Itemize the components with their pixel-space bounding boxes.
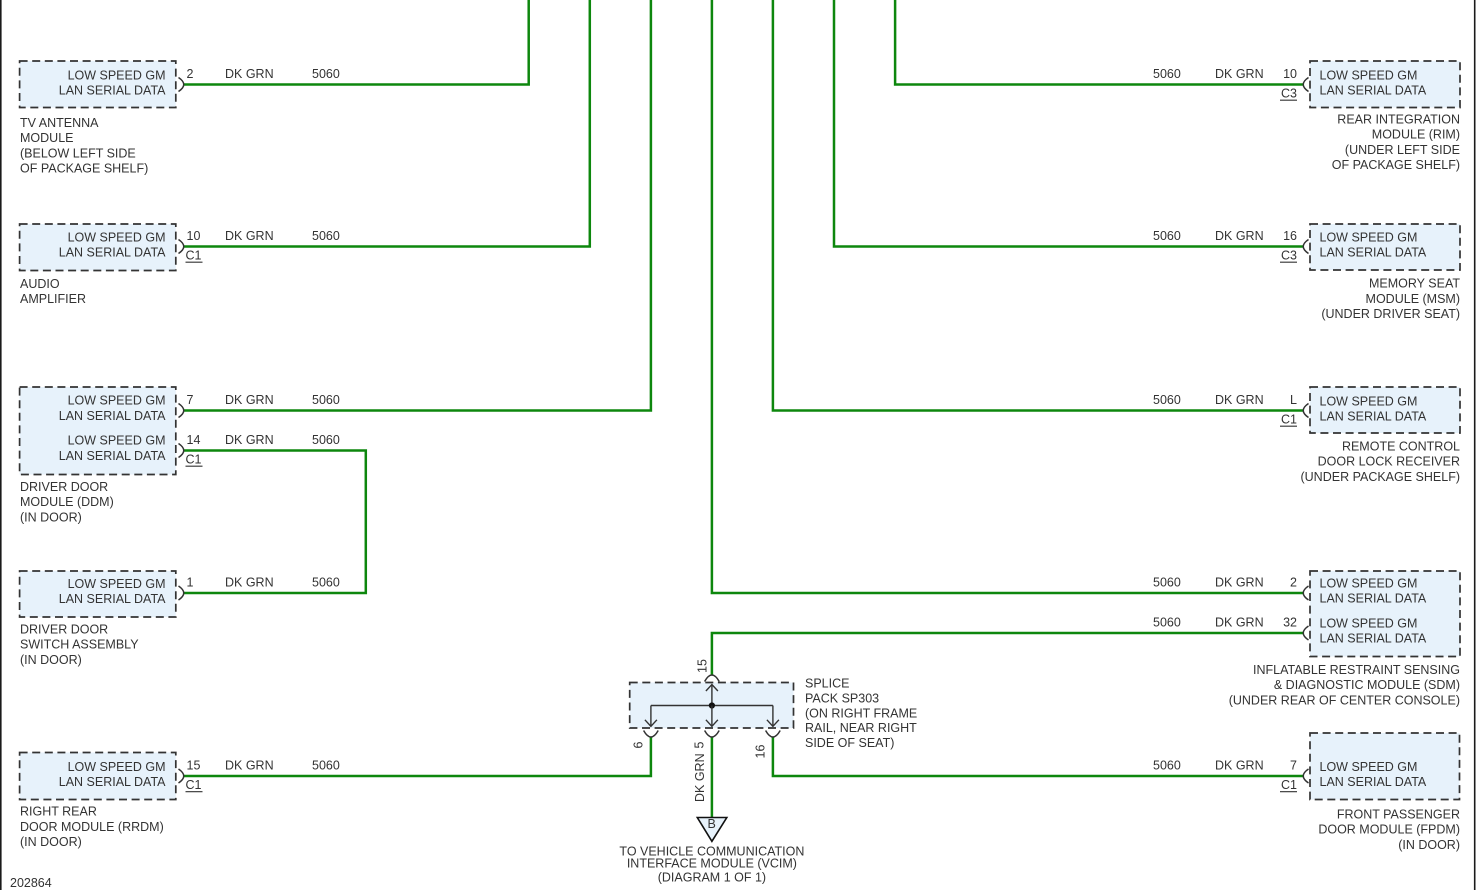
svg-text:C1: C1 xyxy=(186,249,202,263)
splice internal down arrow (center) xyxy=(706,706,718,727)
svg-text:DK GRN: DK GRN xyxy=(1215,67,1264,81)
wire: driver door module pin 14 to driver door switch assembly pin 1, DK GRN 5060 xyxy=(184,451,366,594)
svg-text:AUDIO: AUDIO xyxy=(20,277,60,291)
page frame right border xyxy=(1474,0,1476,890)
connector C3 label xyxy=(1280,249,1297,263)
connector arc, right module pin 32 xyxy=(1303,626,1308,640)
module name label: AUDIO AMPLIFIER xyxy=(20,277,86,306)
svg-text:5060: 5060 xyxy=(312,759,340,773)
svg-text:(BELOW LEFT SIDE: (BELOW LEFT SIDE xyxy=(20,146,136,160)
module box U9: inflatable restraint sensing and diagnostic module (SDM), LOW SPEED GM LAN SERIAL DATA x2 xyxy=(1310,571,1460,657)
svg-text:LOW SPEED GM: LOW SPEED GM xyxy=(1320,577,1418,591)
svg-text:LOW SPEED GM: LOW SPEED GM xyxy=(68,577,166,591)
svg-text:RIGHT REAR: RIGHT REAR xyxy=(20,805,97,819)
svg-text:LOW SPEED GM: LOW SPEED GM xyxy=(1320,395,1418,409)
svg-text:5060: 5060 xyxy=(1153,616,1181,630)
svg-text:7: 7 xyxy=(187,393,194,407)
svg-text:5060: 5060 xyxy=(312,393,340,407)
svg-text:202864: 202864 xyxy=(10,876,52,890)
connector arc, left module pin 7 xyxy=(179,404,184,418)
svg-text:LAN SERIAL DATA: LAN SERIAL DATA xyxy=(59,84,166,98)
svg-text:DK GRN: DK GRN xyxy=(1215,576,1264,590)
svg-text:LAN SERIAL DATA: LAN SERIAL DATA xyxy=(1320,84,1427,98)
destination label: TO VEHICLE COMMUNICATION INTERFACE MODULE (VCIM) xyxy=(619,845,804,885)
connector C3 label xyxy=(1280,87,1297,101)
page frame left border xyxy=(0,0,2,890)
svg-text:5060: 5060 xyxy=(312,229,340,243)
splice internal down arrow (right) xyxy=(767,706,779,727)
module box U2: audio amplifier, LOW SPEED GM LAN SERIAL DATA xyxy=(20,224,176,271)
svg-text:DK GRN: DK GRN xyxy=(225,576,274,590)
svg-text:2: 2 xyxy=(1290,576,1297,590)
wire: splice SP303 pin 16 to front passenger door module pin 7, DK GRN 5060 xyxy=(773,737,1304,776)
svg-text:(UNDER REAR OF CENTER CONSOLE): (UNDER REAR OF CENTER CONSOLE) xyxy=(1229,693,1460,707)
svg-text:LOW SPEED GM: LOW SPEED GM xyxy=(68,760,166,774)
module box U5: right rear door module (RRDM), LOW SPEED GM LAN SERIAL DATA xyxy=(20,753,176,800)
splice internal up arrow xyxy=(706,685,718,706)
connector arc, right module pin 10 xyxy=(1303,78,1308,92)
svg-text:MODULE (DDM): MODULE (DDM) xyxy=(20,495,114,509)
svg-text:DOOR LOCK RECEIVER: DOOR LOCK RECEIVER xyxy=(1318,455,1460,469)
svg-text:DK GRN: DK GRN xyxy=(225,393,274,407)
connector arc, left module pin 10 xyxy=(179,240,184,254)
svg-text:PACK SP303: PACK SP303 xyxy=(805,692,879,706)
svg-text:5060: 5060 xyxy=(1153,393,1181,407)
svg-text:5060: 5060 xyxy=(1153,576,1181,590)
connector C1 label xyxy=(186,249,203,263)
splice pack name label xyxy=(805,677,917,750)
svg-text:LAN SERIAL DATA: LAN SERIAL DATA xyxy=(59,246,166,260)
svg-text:(IN DOOR): (IN DOOR) xyxy=(20,653,82,667)
svg-text:(ON RIGHT FRAME: (ON RIGHT FRAME xyxy=(805,706,917,720)
module box U4: driver door switch assembly, LOW SPEED GM LAN SERIAL DATA xyxy=(20,571,176,617)
module name label: DRIVER DOOR SWITCH ASSEMBLY xyxy=(20,623,139,667)
module name label: INFLATABLE RESTRAINT SENSING AND DIAGNOSTIC MODULE (SDM) xyxy=(1229,663,1460,707)
svg-text:(UNDER LEFT SIDE: (UNDER LEFT SIDE xyxy=(1345,143,1460,157)
module name label: DRIVER DOOR MODULE (DDM) xyxy=(20,480,114,524)
module box U1: TV antenna module, LOW SPEED GM LAN SERIAL DATA xyxy=(20,61,176,108)
svg-text:REAR INTEGRATION: REAR INTEGRATION xyxy=(1337,113,1460,127)
svg-text:LOW SPEED GM: LOW SPEED GM xyxy=(1320,760,1418,774)
connector C1 label xyxy=(1280,413,1297,427)
wire: SDM pin 2 to trunk, DK GRN 5060 xyxy=(712,0,1304,593)
svg-text:B: B xyxy=(708,817,716,831)
svg-text:5060: 5060 xyxy=(312,576,340,590)
connector C1 label xyxy=(186,453,203,467)
svg-text:7: 7 xyxy=(1290,759,1297,773)
svg-text:16: 16 xyxy=(754,745,768,759)
svg-text:15: 15 xyxy=(187,759,201,773)
svg-text:10: 10 xyxy=(1283,67,1297,81)
svg-text:REMOTE CONTROL: REMOTE CONTROL xyxy=(1342,440,1460,454)
svg-text:6: 6 xyxy=(632,742,646,749)
module box U3: driver door module (DDM), LOW SPEED GM LAN SERIAL DATA x2 xyxy=(20,387,176,475)
svg-text:5: 5 xyxy=(693,742,707,749)
svg-text:DOOR MODULE (RRDM): DOOR MODULE (RRDM) xyxy=(20,820,164,834)
splice internal bus line xyxy=(651,705,773,707)
svg-text:DRIVER DOOR: DRIVER DOOR xyxy=(20,480,108,494)
module box U6: rear integration module (RIM), LOW SPEED GM LAN SERIAL DATA xyxy=(1310,61,1460,108)
svg-text:16: 16 xyxy=(1283,229,1297,243)
svg-text:MODULE (RIM): MODULE (RIM) xyxy=(1372,128,1460,142)
svg-text:1: 1 xyxy=(187,576,194,590)
svg-text:SWITCH ASSEMBLY: SWITCH ASSEMBLY xyxy=(20,638,139,652)
svg-text:5060: 5060 xyxy=(312,67,340,81)
svg-text:DK GRN: DK GRN xyxy=(693,753,707,802)
wire: rear integration module pin 10 to trunk, DK GRN 5060 xyxy=(895,0,1303,85)
wire: memory seat module pin 16 to trunk, DK GRN 5060 xyxy=(834,0,1304,247)
svg-text:DK GRN: DK GRN xyxy=(1215,616,1264,630)
svg-text:DK GRN: DK GRN xyxy=(225,67,274,81)
connector arc, right module pin 7 xyxy=(1303,769,1308,783)
svg-text:(UNDER PACKAGE SHELF): (UNDER PACKAGE SHELF) xyxy=(1300,470,1460,484)
svg-text:LAN SERIAL DATA: LAN SERIAL DATA xyxy=(1320,410,1427,424)
wire: TV antenna module pin 2 to trunk, DK GRN 5060 xyxy=(184,0,529,85)
svg-text:MODULE (MSM): MODULE (MSM) xyxy=(1366,292,1460,306)
svg-text:(IN DOOR): (IN DOOR) xyxy=(20,835,82,849)
svg-text:L: L xyxy=(1290,393,1297,407)
svg-text:LOW SPEED GM: LOW SPEED GM xyxy=(68,231,166,245)
svg-text:C1: C1 xyxy=(1281,413,1297,427)
svg-text:DK GRN: DK GRN xyxy=(1215,759,1264,773)
connector arc, left module pin 2 xyxy=(179,78,184,92)
svg-text:C1: C1 xyxy=(186,453,202,467)
svg-text:INFLATABLE RESTRAINT SENSING: INFLATABLE RESTRAINT SENSING xyxy=(1253,663,1460,677)
connector arc, splice pin 16 (bottom) xyxy=(766,731,781,738)
module name label: TV ANTENNA MODULE xyxy=(20,116,148,176)
connector arc, splice pin 5 (bottom) xyxy=(705,731,720,738)
wire: remote control door lock receiver pin L to trunk, DK GRN 5060 xyxy=(773,0,1304,411)
svg-text:TV ANTENNA: TV ANTENNA xyxy=(20,116,99,130)
svg-text:LAN SERIAL DATA: LAN SERIAL DATA xyxy=(59,775,166,789)
svg-text:MODULE: MODULE xyxy=(20,131,73,145)
svg-text:(IN DOOR): (IN DOOR) xyxy=(1398,838,1460,852)
svg-text:LOW SPEED GM: LOW SPEED GM xyxy=(68,394,166,408)
svg-text:DK GRN: DK GRN xyxy=(1215,229,1264,243)
svg-text:MEMORY SEAT: MEMORY SEAT xyxy=(1369,277,1460,291)
connector arc, right module pin 2 xyxy=(1303,586,1308,600)
connector C1 label xyxy=(1280,778,1297,792)
svg-text:LOW SPEED GM: LOW SPEED GM xyxy=(68,69,166,83)
svg-text:FRONT PASSENGER: FRONT PASSENGER xyxy=(1337,808,1460,822)
svg-text:SIDE OF SEAT): SIDE OF SEAT) xyxy=(805,736,894,750)
svg-text:DK GRN: DK GRN xyxy=(225,433,274,447)
connector arc, right module pin L xyxy=(1303,404,1308,418)
module box U7: memory seat module (MSM), LOW SPEED GM LAN SERIAL DATA xyxy=(1310,224,1460,270)
svg-text:LAN SERIAL DATA: LAN SERIAL DATA xyxy=(59,409,166,423)
svg-text:15: 15 xyxy=(695,659,709,673)
connector C1 label xyxy=(186,778,203,792)
wire: splice SP303 pin 6 to right rear door module pin 15, DK GRN 5060 xyxy=(184,737,651,776)
svg-text:SPLICE: SPLICE xyxy=(805,677,849,691)
svg-text:LAN SERIAL DATA: LAN SERIAL DATA xyxy=(1320,592,1427,606)
svg-text:OF PACKAGE SHELF): OF PACKAGE SHELF) xyxy=(20,162,148,176)
svg-text:C3: C3 xyxy=(1281,87,1297,101)
svg-text:DK GRN: DK GRN xyxy=(225,759,274,773)
svg-text:RAIL, NEAR RIGHT: RAIL, NEAR RIGHT xyxy=(805,721,917,735)
module box U10: front passenger door module (FPDM), LOW SPEED GM LAN SERIAL DATA xyxy=(1310,733,1460,800)
wire: SDM pin 32 to splice SP303 pin 15, DK GRN 5060 xyxy=(712,633,1304,675)
svg-text:32: 32 xyxy=(1283,616,1297,630)
svg-text:(UNDER DRIVER SEAT): (UNDER DRIVER SEAT) xyxy=(1321,307,1460,321)
module name label: FRONT PASSENGER DOOR MODULE (FPDM) xyxy=(1318,808,1460,852)
svg-text:DK GRN: DK GRN xyxy=(225,229,274,243)
svg-text:C3: C3 xyxy=(1281,249,1297,263)
svg-text:5060: 5060 xyxy=(312,433,340,447)
svg-text:LOW SPEED GM: LOW SPEED GM xyxy=(68,434,166,448)
connector arc, splice pin 6 (bottom) xyxy=(644,731,659,738)
svg-text:LOW SPEED GM: LOW SPEED GM xyxy=(1320,69,1418,83)
module name label: RIGHT REAR DOOR MODULE (RRDM) xyxy=(20,805,164,849)
splice junction dot xyxy=(709,702,715,708)
svg-text:LAN SERIAL DATA: LAN SERIAL DATA xyxy=(1320,632,1427,646)
connector arc, right module pin 16 xyxy=(1303,240,1308,254)
splice internal down arrow (left) xyxy=(645,706,657,727)
svg-text:5060: 5060 xyxy=(1153,229,1181,243)
svg-text:OF PACKAGE SHELF): OF PACKAGE SHELF) xyxy=(1332,158,1460,172)
wire: splice SP303 pin 5 to off-page connector B, DK GRN xyxy=(711,737,714,818)
svg-text:LAN SERIAL DATA: LAN SERIAL DATA xyxy=(59,592,166,606)
module name label: MEMORY SEAT MODULE (MSM) xyxy=(1321,277,1460,321)
svg-text:(DIAGRAM 1 OF 1): (DIAGRAM 1 OF 1) xyxy=(658,871,766,885)
svg-text:2: 2 xyxy=(187,67,194,81)
svg-text:14: 14 xyxy=(187,433,201,447)
svg-text:LAN SERIAL DATA: LAN SERIAL DATA xyxy=(59,449,166,463)
svg-text:C1: C1 xyxy=(186,778,202,792)
svg-text:10: 10 xyxy=(187,229,201,243)
svg-text:DOOR MODULE (FPDM): DOOR MODULE (FPDM) xyxy=(1318,823,1460,837)
connector arc, left module pin 14 xyxy=(179,444,184,458)
splice pack SP303 box xyxy=(630,683,794,729)
module name label: REAR INTEGRATION MODULE (RIM) xyxy=(1332,113,1460,173)
svg-text:5060: 5060 xyxy=(1153,759,1181,773)
svg-text:5060: 5060 xyxy=(1153,67,1181,81)
svg-text:DRIVER DOOR: DRIVER DOOR xyxy=(20,623,108,637)
connector arc, splice pin 15 (top) xyxy=(705,675,720,682)
off-page connector B (to VCIM) xyxy=(697,817,727,841)
svg-text:INTERFACE MODULE (VCIM): INTERFACE MODULE (VCIM) xyxy=(627,856,797,870)
module box U8: remote control door lock receiver, LOW SPEED GM LAN SERIAL DATA xyxy=(1310,387,1460,433)
svg-text:AMPLIFIER: AMPLIFIER xyxy=(20,292,86,306)
wire: audio amplifier pin 10 to trunk, DK GRN 5060 xyxy=(184,0,590,247)
svg-text:LAN SERIAL DATA: LAN SERIAL DATA xyxy=(1320,775,1427,789)
svg-text:LOW SPEED GM: LOW SPEED GM xyxy=(1320,231,1418,245)
svg-text:DK GRN: DK GRN xyxy=(1215,393,1264,407)
svg-text:LAN SERIAL DATA: LAN SERIAL DATA xyxy=(1320,246,1427,260)
module name label: REMOTE CONTROL DOOR LOCK RECEIVER xyxy=(1300,440,1460,484)
connector arc, left module pin 1 xyxy=(179,586,184,600)
svg-text:(IN DOOR): (IN DOOR) xyxy=(20,510,82,524)
connector arc, left module pin 15 xyxy=(179,769,184,783)
wire: driver door module pin 7 to trunk, DK GRN 5060 xyxy=(184,0,651,411)
svg-text:& DIAGNOSTIC MODULE (SDM): & DIAGNOSTIC MODULE (SDM) xyxy=(1274,678,1460,692)
svg-text:LOW SPEED GM: LOW SPEED GM xyxy=(1320,617,1418,631)
svg-text:C1: C1 xyxy=(1281,778,1297,792)
